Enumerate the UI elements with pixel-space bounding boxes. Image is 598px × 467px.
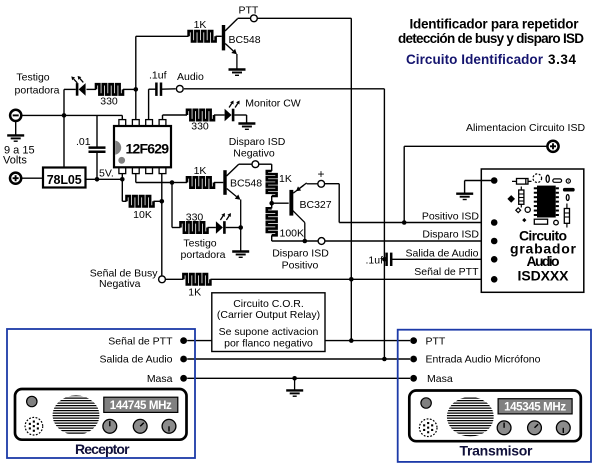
- wire Q2 collector to node: [239, 163, 252, 165]
- svg-text:78L05: 78L05: [47, 173, 82, 187]
- box receptor: [7, 329, 195, 458]
- wire busy node to 1K: [165, 278, 183, 280]
- label Monitor CW: [245, 98, 301, 110]
- label 1K vertical: [279, 173, 292, 185]
- IC U1 12F629: [114, 120, 171, 174]
- svg-text:.01: .01: [76, 136, 91, 148]
- resistor R 330 (LED1): [96, 84, 123, 94]
- wire 330 to LED3: [214, 114, 225, 116]
- label Disparo ISD: [422, 229, 479, 241]
- svg-text:Volts: Volts: [3, 155, 27, 167]
- svg-text:BC327: BC327: [300, 199, 332, 211]
- svg-text:portadora: portadora: [15, 85, 60, 97]
- svg-text:10K: 10K: [133, 209, 152, 221]
- junction 10K / pin5 line: [160, 199, 165, 204]
- svg-text:1K: 1K: [194, 165, 207, 177]
- label 330 LED2: [186, 211, 204, 223]
- label transmisor masa: [427, 373, 453, 385]
- junction PTT bus / transmisor line: [349, 338, 354, 343]
- node PTT open circle: [251, 15, 258, 22]
- svg-text:Disparo ISD: Disparo ISD: [422, 229, 479, 241]
- wire audio bus B: [184, 89, 384, 359]
- node plus circle: [318, 180, 325, 187]
- junction audio bus / audio row: [382, 357, 387, 362]
- ground Q1 emitter: [229, 70, 246, 76]
- label BC548 Q2: [230, 178, 262, 190]
- LED D2 testigo portadora: [216, 213, 231, 234]
- svg-text:Transmisor: Transmisor: [460, 442, 534, 458]
- wire junction to 1K Q2: [172, 182, 187, 184]
- title line 1: [410, 17, 580, 32]
- junction positivo line / alimentacion bus: [402, 220, 407, 225]
- label COR text: [217, 298, 320, 350]
- resistor R 100K vertical: [267, 208, 277, 235]
- ground Q2 emitter: [232, 252, 249, 258]
- junction 5V rail / PIC pin 1: [120, 177, 125, 182]
- label .1uf 2: [365, 255, 383, 267]
- wire senal PTT receptor to COR: [187, 340, 212, 342]
- junction 5V rail / .01 cap: [95, 177, 100, 182]
- svg-text:(Carrier Output Relay): (Carrier Output Relay): [217, 309, 320, 321]
- radio transmisor drawing: [409, 391, 581, 459]
- label 1K over R Q1: [194, 19, 207, 31]
- pin ISD ground: [491, 177, 498, 184]
- label .01: [76, 136, 91, 148]
- label 10K: [133, 209, 152, 221]
- svg-text:1K: 1K: [279, 173, 292, 185]
- label receptor salida de audio: [100, 354, 173, 366]
- svg-text:Identificador para repetidor: Identificador para repetidor: [410, 17, 580, 32]
- wire COR to transmisor PTT: [325, 340, 410, 342]
- junction audio bus / cap: [382, 257, 387, 262]
- node Disparo ISD Negativo circle: [252, 161, 259, 168]
- svg-text:Masa: Masa: [427, 373, 453, 385]
- transistor Q2 BC548 (disparo ISD negativo): [223, 164, 238, 195]
- svg-text:PTT: PTT: [239, 5, 259, 17]
- svg-text:Señal de PTT: Señal de PTT: [414, 266, 479, 278]
- wire PIC pin4 to 330: [163, 115, 188, 121]
- emitter Q3 with arrow (PNP): [293, 183, 318, 193]
- wire cap to ISD salida pin: [391, 258, 491, 260]
- svg-text:1K: 1K: [188, 287, 201, 299]
- label receptor masa: [147, 373, 173, 385]
- label plus sign: [317, 167, 324, 181]
- pin transmisor entrada audio: [410, 356, 417, 363]
- terminal plus (positive supply input): [10, 173, 21, 184]
- svg-text:Salida de Audio: Salida de Audio: [406, 247, 479, 259]
- svg-text:.1uf: .1uf: [149, 70, 167, 82]
- title line 3: [406, 52, 576, 67]
- wire alimentacion to bus C: [404, 146, 547, 222]
- svg-text:Negativa: Negativa: [99, 278, 141, 290]
- resistor R 1K (Q2 base): [187, 177, 214, 187]
- label BC327: [300, 199, 332, 211]
- svg-text:por flanco negativo: por flanco negativo: [224, 338, 313, 350]
- wire 5V rail 78L05 to PIC: [86, 178, 123, 180]
- wire PIC pin3 to cap .1uf: [149, 89, 157, 121]
- svg-text:Negativo: Negativo: [233, 148, 275, 160]
- ground ISD: [456, 194, 473, 200]
- label PTT: [239, 5, 259, 17]
- LED D3 monitor CW: [225, 101, 240, 122]
- node Disparo ISD Positivo circle: [318, 238, 325, 245]
- junction LED wire / PIC pin2 line: [134, 87, 139, 92]
- label 1K busy: [188, 287, 201, 299]
- resistor R 1K vertical: [267, 171, 277, 196]
- LED D1 testigo portadora: [71, 76, 85, 96]
- svg-text:144745 MHz: 144745 MHz: [110, 400, 172, 412]
- svg-text:330: 330: [100, 96, 118, 108]
- label transmisor PTT: [426, 335, 446, 347]
- label 100K: [280, 228, 305, 240]
- ground under minus terminal: [7, 121, 24, 141]
- wire PIC pin7 to 1K Q2: [136, 174, 172, 183]
- svg-text:100K: 100K: [280, 228, 305, 240]
- svg-text:12F629: 12F629: [126, 140, 170, 156]
- node Senal de Busy open circle: [159, 276, 166, 283]
- box Circuito COR: [212, 293, 325, 352]
- collector Q3: [293, 210, 305, 241]
- svg-text:BC548: BC548: [229, 34, 261, 46]
- resistor R 330 (monitor CW): [187, 110, 214, 120]
- label Positivo ISD: [422, 211, 480, 223]
- svg-text:Salida de Audio: Salida de Audio: [100, 354, 173, 366]
- svg-text:5V.: 5V.: [99, 168, 114, 180]
- label receptor senal de PTT: [108, 335, 173, 347]
- label Testigo portadora 2: [181, 238, 226, 262]
- wire plus node to positivo ISD line: [325, 184, 492, 223]
- wire ground rail to 78L05 ground pin: [63, 89, 65, 167]
- wire PIC pin1 down to 10K: [122, 174, 126, 202]
- capacitor C .1uf (salida audio): [387, 253, 392, 266]
- label Testigo portadora left: [15, 72, 60, 97]
- svg-text:Señal de PTT: Señal de PTT: [108, 335, 173, 347]
- wire masa row: [187, 377, 410, 379]
- wire 10K right to pin5 line: [154, 200, 162, 202]
- wire LED2 to emitter line: [226, 227, 241, 229]
- transistor Q1 BC548 (PTT): [222, 19, 238, 51]
- wire ISD ground pin: [465, 181, 492, 193]
- label Disparo ISD Positivo: [272, 248, 329, 272]
- box transmisor: [398, 330, 591, 462]
- svg-text:Audio: Audio: [177, 71, 204, 83]
- junction ground rail / LED branch: [62, 113, 67, 118]
- label 330 under R LED1: [100, 96, 118, 108]
- pin ISD senal PTT: [491, 276, 498, 283]
- ground rail wire from minus terminal to PIC pin: [22, 115, 123, 121]
- wire 330 to LED2: [208, 227, 216, 229]
- svg-text:Entrada Audio Micrófono: Entrada Audio Micrófono: [426, 354, 541, 366]
- label Audio: [177, 71, 204, 83]
- label 9 a 15 Volts: [3, 145, 35, 167]
- svg-text:BC548: BC548: [230, 178, 262, 190]
- wire PTT bus A: [257, 18, 351, 341]
- svg-text:Positivo: Positivo: [282, 260, 319, 272]
- wire busy line to ISD Senal de PTT pin: [210, 278, 491, 280]
- wire PIC pin2 vertical to 1K: [136, 36, 189, 121]
- resistor R 1K (busy): [183, 274, 210, 284]
- svg-text:portadora: portadora: [181, 249, 226, 261]
- svg-text:ISDXXX: ISDXXX: [518, 268, 570, 284]
- wire 330 to vertical bus: [123, 88, 136, 90]
- terminal plus alimentacion ISD: [547, 141, 558, 152]
- svg-text:PTT: PTT: [426, 335, 446, 347]
- pin receptor salida audio: [180, 356, 187, 363]
- pin transmisor PTT: [410, 337, 417, 344]
- wire salida audio to entrada audio: [187, 358, 410, 360]
- svg-text:Alimentacion Circuito ISD: Alimentacion Circuito ISD: [466, 122, 585, 134]
- label Circuito grabador Audio ISDXXX: [510, 228, 577, 284]
- junction masa / ground: [292, 376, 297, 381]
- label 5V.: [99, 168, 114, 180]
- title line 2: [398, 31, 584, 46]
- svg-text:330: 330: [186, 211, 204, 223]
- resistor R 10K: [127, 196, 154, 206]
- svg-text:Testigo: Testigo: [16, 72, 49, 84]
- wire disparo positivo to ISD pin: [326, 240, 492, 242]
- radio receptor drawing: [15, 389, 187, 457]
- junction collector / disparo line: [303, 239, 308, 244]
- wire negativo node to vertical 1K: [259, 164, 272, 171]
- resistor R 1K (BC548 Q1 base): [189, 31, 216, 41]
- label .1uf top: [149, 70, 167, 82]
- wire plus terminal to 78L05: [22, 177, 44, 179]
- svg-text:+: +: [317, 167, 324, 181]
- capacitor C .01 between rails: [89, 115, 106, 179]
- junction busy line / PTT bus A: [349, 277, 354, 282]
- svg-text:1K: 1K: [194, 19, 207, 31]
- svg-text:Circuito Identificador: Circuito Identificador: [406, 52, 544, 67]
- svg-text:Disparo ISD: Disparo ISD: [229, 136, 286, 148]
- wire junction down to 330 LED2: [172, 183, 181, 228]
- label 1K Q2: [194, 165, 207, 177]
- svg-text:Testigo: Testigo: [183, 238, 216, 250]
- node Audio open circle: [176, 85, 183, 92]
- wire Q1 collector to PTT node: [238, 17, 251, 19]
- svg-text:detección de busy y disparo IS: detección de busy y disparo ISD: [398, 31, 584, 46]
- pin receptor masa: [180, 375, 187, 382]
- junction divider mid: [269, 196, 274, 208]
- box circuito grabador ISD: [481, 169, 584, 292]
- wire 1K to Q2 base: [214, 182, 223, 184]
- svg-text:Se supone activacion: Se supone activacion: [219, 326, 319, 338]
- PCB graphic on ISD board: [507, 174, 574, 228]
- svg-text:Positivo ISD: Positivo ISD: [422, 211, 480, 223]
- pin ISD disparo: [491, 238, 498, 245]
- svg-text:145345 MHz: 145345 MHz: [504, 402, 566, 414]
- junction pin7 line / LED2 branch: [170, 180, 175, 185]
- emitter Q1 with arrow: [225, 44, 237, 69]
- junction LED2 / emitter line: [238, 225, 243, 230]
- label Senal de Busy Negativa: [90, 267, 158, 290]
- pin ISD positivo: [491, 219, 498, 226]
- label 330 monitor: [191, 121, 209, 133]
- svg-text:.1uf: .1uf: [365, 255, 383, 267]
- wire PIC pin5 down to busy node: [161, 174, 163, 276]
- wire 100K bottom to disparo line: [272, 235, 318, 241]
- transistor Q3 BC327: [289, 190, 293, 216]
- pin ISD salida audio: [491, 256, 498, 263]
- svg-text:330: 330: [191, 121, 209, 133]
- pin receptor senal PTT: [180, 337, 187, 344]
- svg-text:Monitor CW: Monitor CW: [245, 98, 301, 110]
- svg-text:Receptor: Receptor: [75, 441, 130, 457]
- wire base to BC327: [272, 202, 289, 204]
- label Disparo ISD Negativo: [229, 136, 286, 160]
- label Alimentacion Circuito ISD: [466, 122, 585, 134]
- terminal minus (negative supply input): [10, 110, 21, 121]
- emitter Q2 with arrow: [227, 189, 241, 251]
- label BC548 Q1: [229, 34, 261, 46]
- resistor R 330 (LED2): [181, 222, 208, 232]
- ground monitor CW: [238, 124, 255, 130]
- wire 1K to Q1 base: [216, 35, 222, 37]
- wire cap to Audio node: [161, 88, 176, 90]
- svg-text:3.34: 3.34: [548, 52, 576, 67]
- label Salida de Audio: [406, 247, 479, 259]
- label transmisor entrada audio: [426, 354, 541, 366]
- ground masa row: [286, 378, 303, 396]
- svg-text:Disparo ISD: Disparo ISD: [272, 248, 329, 260]
- label Senal de PTT isd: [414, 266, 479, 278]
- svg-text:Masa: Masa: [147, 373, 173, 385]
- wire LED3 to ground: [234, 115, 246, 123]
- regulator 78L05: [43, 168, 86, 188]
- pin transmisor masa: [410, 375, 417, 382]
- wire LED1 branch: [64, 88, 96, 90]
- capacitor C .1uf (audio): [156, 83, 161, 96]
